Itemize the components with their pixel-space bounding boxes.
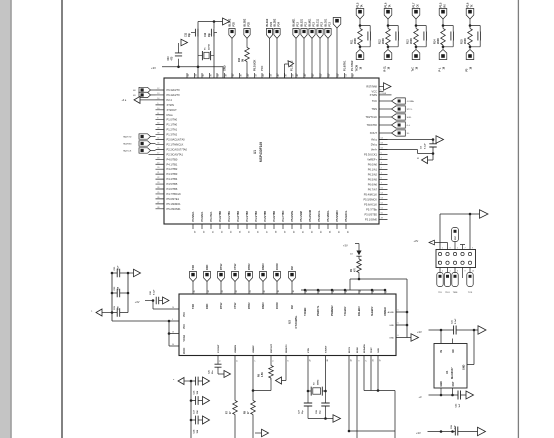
svg-text:TXD: TXD — [192, 304, 195, 309]
capacitor C28 22p — [316, 391, 330, 419]
svg-text:P25: P25 — [232, 22, 235, 27]
svg-text:+3V: +3V — [135, 300, 140, 304]
svg-text:P2.3/CA0/TA1: P2.3/CA0/TA1 — [167, 152, 184, 156]
svg-text:P4.1/TB1: P4.1/TB1 — [228, 210, 231, 221]
svg-text:RTS#: RTS# — [220, 302, 223, 309]
svg-text:19: 19 — [278, 290, 280, 292]
svg-text:11: 11 — [360, 291, 362, 293]
svg-text:18: 18 — [293, 290, 295, 292]
net flag U1 top pin 44 — [266, 18, 273, 78]
wire JTAG TCK/ TDO top rail — [440, 213, 480, 250]
svg-text:16: 16 — [306, 290, 308, 292]
svg-text:RTS#: RTS# — [220, 263, 223, 270]
net flag U1 top pin 41 — [244, 18, 251, 78]
svg-text:XT2IN: XT2IN — [167, 103, 174, 107]
net flag RI# (U3 top pin 18) — [289, 266, 296, 295]
U3 left pin labels and numbers — [172, 307, 186, 354]
svg-text:P4.0/TB0: P4.0/TB0 — [167, 157, 178, 161]
svg-text:R11: R11 — [350, 39, 353, 44]
svg-text:XTOUT: XTOUT — [326, 345, 328, 353]
net flag U1 top pin 45 — [274, 18, 281, 78]
svg-text:BL2A2: BL2A2 — [266, 18, 269, 26]
wire RESET# with gnd arrow — [270, 356, 286, 385]
svg-text:P6.4/A4/TX: P6.4/A4/TX — [167, 93, 181, 97]
svg-text:RST/NMI: RST/NMI — [366, 85, 377, 89]
svg-text:P4.3/TB3: P4.3/TB3 — [246, 210, 249, 221]
wire U4 GND right loop — [467, 330, 474, 365]
svg-text:+3V: +3V — [414, 239, 419, 243]
svg-text:P5.2/SOM: P5.2/SOM — [309, 210, 312, 222]
svg-text:P2.6: P2.6 — [468, 2, 470, 7]
svg-text:9: 9 — [386, 291, 388, 292]
net flag U1 top pin 52 — [325, 18, 332, 78]
svg-text:P1.7/TA2: P1.7/TA2 — [351, 60, 354, 71]
svg-text:26: 26 — [172, 307, 174, 309]
svg-text:P4.3/TB3: P4.3/TB3 — [167, 172, 178, 176]
svg-text:P6.1/A1: P6.1/A1 — [368, 168, 378, 172]
svg-text:P5.6/ACLK: P5.6/ACLK — [364, 203, 377, 207]
svg-text:TDI: TDI — [438, 292, 442, 294]
wire JTAG pin 8 stub down — [462, 268, 464, 279]
svg-text:XT2IN: XT2IN — [370, 93, 377, 97]
U4 pin labels — [440, 349, 465, 387]
svg-text:1: 1 — [358, 360, 360, 361]
svg-text:EECS: EECS — [349, 347, 351, 353]
U1 left pin labels — [167, 88, 188, 211]
svg-text:27: 27 — [309, 359, 311, 361]
svg-text:TA: TA — [360, 4, 363, 7]
resistor R12 200K with parallel capacitor unit — [378, 2, 398, 71]
net flag TDO (JTAG bottom) — [444, 268, 450, 295]
wire bottom bus — [348, 430, 395, 433]
svg-text:200K: 200K — [354, 38, 357, 44]
svg-text:R13: R13 — [406, 39, 409, 44]
svg-text:32768: 32768 — [208, 43, 210, 50]
wire PWREN/TXLED/RXLED bus above U3 — [301, 278, 407, 294]
svg-text:P6.3/A3/TX: P6.3/A3/TX — [167, 88, 181, 92]
op-amp U1 MSP430F149 microcontroller body — [164, 78, 379, 224]
svg-text:TMS: TMS — [453, 292, 458, 294]
svg-text:TCK: TCK — [468, 292, 473, 294]
svg-text:10: 10 — [373, 290, 375, 292]
svg-text:P5.3/UCL: P5.3/UCL — [318, 210, 321, 221]
svg-text:DVss: DVss — [167, 113, 174, 117]
svg-text:2: 2 — [365, 360, 367, 361]
capacitor C23 104 — [111, 305, 128, 316]
wire top gnd rail of crystal — [198, 21, 223, 23]
net flag U1 top pin 50 — [309, 18, 316, 78]
svg-text:GND: GND — [389, 325, 394, 327]
svg-text:3: 3 — [172, 319, 173, 321]
svg-text:TDO/TDI: TDO/TDI — [367, 123, 378, 127]
svg-text:R12: R12 — [378, 39, 381, 44]
svg-text:+3V: +3V — [417, 330, 422, 334]
wire XOUT column — [213, 22, 215, 79]
svg-text:P6.5/A5: P6.5/A5 — [368, 178, 378, 182]
svg-text:C10: C10 — [168, 56, 170, 61]
ground arrow AVss — [417, 157, 428, 164]
net flag P6.4 (U1 left pin 2) — [133, 92, 156, 97]
svg-text:S.NL: S.NL — [407, 117, 413, 119]
U1 top pin stubs and pin numbers — [187, 73, 355, 78]
svg-text:P-L: P-L — [439, 67, 441, 71]
net arrow above C10 — [181, 39, 188, 46]
resistor R10 47K — [239, 48, 250, 63]
capacitor C12 18p — [205, 29, 217, 37]
svg-text:25: 25 — [194, 290, 196, 292]
svg-text:P5.0/STE1: P5.0/STE1 — [167, 197, 180, 201]
svg-text:VCC: VCC — [184, 324, 186, 329]
svg-text:AGND: AGND — [388, 311, 395, 314]
wire JTAG pin 4 stub — [460, 245, 465, 250]
svg-text:P2.0/ACLK/TA0: P2.0/ACLK/TA0 — [167, 138, 186, 142]
capacitor C25 33nF (3V3OUT) — [209, 356, 231, 378]
wire +3V long feed to U3 (from cap bank) — [112, 320, 169, 322]
connector J2 JTAG 2x5 header — [436, 250, 476, 268]
net arrow elbow on U1 top pin (P2.7) — [285, 61, 294, 78]
svg-text:P5.7/TBo: P5.7/TBo — [366, 208, 377, 212]
svg-text:P13: P13 — [320, 22, 323, 27]
crystal Y2 6MHz — [307, 356, 327, 396]
net flag U1 top pin 49 — [301, 18, 308, 78]
wire U4 NC stub — [452, 339, 454, 344]
svg-text:0.1uF: 0.1uF — [153, 289, 155, 295]
svg-text:P4.1/TB1: P4.1/TB1 — [167, 162, 178, 166]
svg-text:OUT: OUT — [452, 381, 455, 387]
net flag RTS# (U3 top pin 23) — [218, 263, 225, 294]
svg-text:USBDM: USBDM — [235, 345, 237, 353]
svg-text:6: 6 — [457, 271, 458, 273]
svg-text:DTR#: DTR# — [248, 263, 251, 270]
capacitor C16 104 with net arrow — [191, 377, 210, 395]
resistor R11 200K with parallel capacitor unit — [350, 2, 370, 71]
svg-text:3V3OUT: 3V3OUT — [218, 344, 220, 353]
svg-text:6: 6 — [398, 335, 399, 337]
svg-text:P25: P25 — [247, 22, 250, 27]
svg-text:30: 30 — [172, 344, 174, 346]
wire AVcc net to decoupling — [379, 140, 433, 161]
svg-text:BLS21: BLS21 — [301, 18, 304, 26]
U1 top pin name labels — [224, 60, 355, 71]
svg-text:GND: GND — [378, 348, 380, 353]
net flag RXD (U3 top pin 24) — [204, 265, 211, 294]
svg-text:XTIN: XTIN — [308, 348, 310, 353]
resistor R8 27 — [245, 401, 256, 438]
svg-text:RXD: RXD — [206, 304, 209, 309]
power arrow (stack top left) — [173, 378, 191, 385]
svg-text:AVcc: AVcc — [371, 138, 378, 142]
svg-text:BLC11: BLC11 — [317, 18, 320, 26]
net flag U1 top pin 51 — [317, 18, 324, 78]
svg-text:0M: 0M — [242, 59, 244, 62]
wire USBDP down — [252, 356, 255, 401]
svg-text:TXCM: TXCM — [356, 65, 358, 72]
svg-text:P3.6/Ut1: P3.6/Ut1 — [201, 211, 204, 221]
power arrow +3V (cap bank top) — [128, 269, 141, 277]
junction dots AVcc net — [432, 138, 435, 141]
svg-text:C11: C11 — [185, 32, 187, 37]
svg-text:4: 4 — [450, 271, 451, 273]
svg-text:U1: U1 — [253, 150, 257, 154]
svg-text:IN: IN — [440, 350, 443, 353]
svg-text:NC: NC — [452, 349, 455, 353]
svg-text:VCCA: VCCA — [183, 335, 186, 342]
power +3V arrow into U1 left pin 3 — [122, 96, 156, 103]
svg-text:BL2B2: BL2B2 — [274, 18, 277, 26]
svg-text:7: 7 — [254, 360, 256, 361]
svg-text:P5.0/STE: P5.0/STE — [291, 210, 294, 221]
svg-text:P4.4/TB4: P4.4/TB4 — [255, 210, 258, 221]
svg-text:R14: R14 — [433, 39, 436, 44]
svg-text:GND: GND — [462, 364, 465, 370]
net flag RST (U1 right pin) — [379, 130, 410, 136]
net arrow (R8 bottom area) — [255, 429, 269, 437]
svg-text:P4.6/TB6: P4.6/TB6 — [273, 210, 276, 221]
svg-text:RSTOUT: RSTOUT — [271, 343, 273, 353]
svg-text:200K: 200K — [382, 38, 385, 44]
op-amp U3 FT232BL body — [179, 294, 396, 356]
svg-text:P1.7: P1.7 — [414, 2, 416, 7]
svg-text:2: 2 — [442, 271, 443, 273]
net flag U1 top pin 39 — [229, 18, 236, 78]
svg-text:P5.5/SMCK: P5.5/SMCK — [363, 198, 377, 202]
svg-text:P13: P13 — [304, 22, 307, 27]
net flag DTR# (U3 top pin 21) — [246, 263, 253, 294]
svg-text:P3.1/SIM0: P3.1/SIM0 — [365, 218, 378, 222]
svg-text:M: M — [417, 158, 419, 160]
net flag DCD# (U3 top pin 19) — [274, 263, 281, 294]
U1 right pin RST arrow stub — [379, 83, 391, 91]
svg-text:+3V: +3V — [343, 244, 348, 248]
svg-text:P2.2/CAOUT/TA0: P2.2/CAOUT/TA0 — [167, 147, 188, 151]
svg-text:TA: TA — [388, 4, 391, 7]
capacitor C30 0.1uF (+3V decoupling U3) — [135, 289, 169, 304]
resistor R7 27 — [227, 401, 238, 438]
svg-text:GND: GND — [440, 381, 443, 387]
svg-text:P3.0/STE0: P3.0/STE0 — [364, 213, 377, 217]
resistor R13 200K with parallel capacitor unit — [406, 2, 426, 71]
U3 top pin labels — [192, 302, 294, 309]
svg-text:P5.4/MCLK: P5.4/MCLK — [364, 193, 378, 197]
capacitor C18 104 with net arrow — [190, 416, 210, 434]
wire U3 right ground pins to vertical rail — [396, 279, 411, 338]
capacitor C31 0.1uF row — [417, 318, 486, 335]
svg-text:+3 a: +3 a — [122, 99, 127, 102]
svg-text:DCD#: DCD# — [276, 302, 279, 309]
net flag TMS (U1 right pin) — [379, 106, 413, 112]
svg-text:TA0/TXD: TA0/TXD — [123, 136, 132, 139]
svg-text:P24: P24 — [277, 22, 280, 27]
svg-text:P5.4/MCL: P5.4/MCL — [327, 210, 330, 222]
net flag U1 top pin 53 (far right) — [333, 18, 341, 79]
svg-text:CK: CK — [417, 4, 419, 8]
svg-text:CTS#: CTS# — [234, 263, 237, 270]
svg-text:P5.2/SOMI1: P5.2/SOMI1 — [167, 207, 182, 211]
net flag U1 top pin 48 — [293, 18, 300, 78]
svg-text:TDI/TCLK: TDI/TCLK — [365, 115, 377, 119]
svg-text:P4.2/TB2: P4.2/TB2 — [237, 210, 240, 221]
svg-text:BLM11: BLM11 — [309, 18, 312, 27]
svg-text:R15: R15 — [460, 39, 463, 44]
svg-text:P1.2/TA1: P1.2/TA1 — [167, 128, 178, 132]
resistor R14 200K with parallel capacitor unit — [433, 2, 453, 71]
net flag TCK (U1 right pin) — [379, 98, 414, 104]
svg-text:P6.6/A6: P6.6/A6 — [368, 183, 378, 187]
svg-text:6: 6 — [398, 310, 399, 312]
wire USBDM down — [234, 356, 236, 401]
svg-text:28: 28 — [327, 359, 329, 361]
svg-text:VeREF+: VeREF+ — [367, 158, 377, 162]
svg-text:P4.4/TB4: P4.4/TB4 — [167, 177, 178, 181]
net flag TCK (JTAG bottom) — [467, 268, 473, 295]
svg-text:DTR#: DTR# — [248, 302, 251, 309]
svg-text:15: 15 — [319, 290, 321, 292]
ground arrow crystal caps — [308, 415, 341, 423]
svg-text:18p: 18p — [189, 32, 191, 37]
svg-text:FT232BL: FT232BL — [294, 315, 298, 328]
LED D2 — [350, 251, 362, 257]
net flag TDI (JTAG bottom) — [437, 268, 443, 295]
svg-text:RI#: RI# — [291, 266, 294, 271]
net flag TDO (U1 right pin) — [379, 122, 411, 128]
svg-text:R-CL: R-CL — [384, 65, 386, 71]
svg-text:10: 10 — [472, 271, 474, 273]
svg-text:P6.2/A2: P6.2/A2 — [368, 173, 378, 177]
svg-text:BLC01: BLC01 — [325, 18, 328, 26]
svg-text:R10: R10 — [239, 57, 241, 62]
svg-text:200K: 200K — [464, 38, 467, 44]
svg-text:3: 3 — [450, 247, 451, 249]
wire U3 left supply rail — [168, 320, 179, 346]
net flag CTS# (U3 top pin 22) — [232, 263, 239, 294]
svg-text:P6.7/A7: P6.7/A7 — [368, 188, 378, 192]
svg-text:0.1uF: 0.1uF — [424, 143, 426, 149]
svg-text:1.5K: 1.5K — [262, 372, 264, 377]
svg-text:5: 5 — [272, 360, 274, 361]
svg-text:TA1/RXD: TA1/RXD — [123, 143, 132, 146]
svg-text:P4.7/TBC: P4.7/TBC — [282, 210, 285, 221]
svg-text:L958A: L958A — [380, 92, 386, 95]
svg-text:P4.6/TB6: P4.6/TB6 — [167, 187, 178, 191]
svg-text:P1.0/TA0: P1.0/TA0 — [167, 118, 178, 122]
svg-text:TXD: TXD — [192, 265, 195, 270]
capacitor C32 1uF row — [419, 388, 474, 408]
capacitor C9 0.1uF (AVcc) — [421, 143, 437, 149]
svg-text:AVCC: AVCC — [183, 347, 186, 354]
svg-text:P3.5/Ur1: P3.5/Ur1 — [192, 211, 195, 222]
svg-text:+3V: +3V — [151, 66, 156, 70]
svg-text:DVcc: DVcc — [371, 143, 378, 147]
svg-text:5: 5 — [457, 247, 458, 249]
svg-text:22: 22 — [236, 290, 238, 292]
svg-text:8: 8 — [465, 271, 466, 273]
svg-text:P2.5: P2.5 — [441, 2, 443, 7]
svg-text:P1.6/TA1: P1.6/TA1 — [344, 60, 347, 71]
net flag TMS (JTAG bottom) — [452, 268, 458, 295]
U3 bottom pin labels — [218, 343, 381, 361]
capacitor bank rails — [112, 273, 128, 321]
svg-text:P4.0/TB0: P4.0/TB0 — [219, 210, 222, 221]
svg-text:0.1uF: 0.1uF — [455, 318, 457, 324]
svg-text:200K: 200K — [410, 38, 413, 44]
crystal Y1 32768Hz — [198, 43, 214, 60]
capacitor C22 104 — [111, 286, 130, 297]
op-amp U4 MAX6037 regulator body — [434, 344, 467, 389]
svg-text:VCC: VCC — [372, 90, 378, 94]
wire U1 left pin 15 extended stub — [149, 153, 156, 155]
power +3V arrow (JTAG pin 2) — [414, 239, 448, 250]
svg-text:18p: 18p — [209, 32, 211, 37]
wire XIN column — [197, 22, 199, 79]
U3 right pin labels — [388, 310, 399, 340]
svg-text:P4.7/TBCLK: P4.7/TBCLK — [167, 192, 182, 196]
svg-text:P4.5/TB5: P4.5/TB5 — [167, 182, 178, 186]
svg-text:XT2 L: XT2 L — [407, 109, 414, 111]
svg-text:P13: P13 — [296, 22, 299, 27]
svg-text:TA2/CLK: TA2/CLK — [123, 150, 132, 153]
svg-text:CTS#: CTS# — [234, 302, 237, 309]
svg-text:RXD: RXD — [206, 265, 209, 270]
wire EESK down — [356, 356, 358, 438]
capacitor C11 18p — [185, 29, 198, 37]
svg-text:GND: GND — [389, 338, 394, 340]
wire U4 IN from +3V rail — [440, 330, 442, 344]
capacitor C21 10uF — [111, 265, 130, 277]
svg-text:TxC: TxC — [412, 67, 414, 72]
svg-text:XOUT: XOUT — [370, 131, 378, 135]
svg-text:P1.3/TA2: P1.3/TA2 — [167, 133, 178, 137]
wire EEDATA bus — [364, 356, 395, 438]
net flag RST/NMI (JTAG pin 3) — [452, 228, 459, 250]
svg-text:TDO: TDO — [445, 292, 450, 294]
net flag DSR# (U3 top pin 20) — [260, 263, 267, 294]
svg-text:P5.1/SIMO1: P5.1/SIMO1 — [167, 202, 182, 206]
svg-text:Vref+: Vref+ — [371, 148, 378, 152]
U1 bottom pin stubs and numbers — [193, 224, 349, 233]
svg-text:TEST: TEST — [371, 347, 373, 353]
net flag TA1/RXD (U1 left pin 144.5) — [123, 141, 156, 146]
svg-text:P5.1/SIM: P5.1/SIM — [300, 211, 303, 221]
svg-text:200K: 200K — [437, 38, 440, 44]
svg-text:YCC: YCC — [261, 66, 264, 71]
U3 top-right pin labels — [304, 289, 388, 316]
svg-text:13: 13 — [172, 331, 174, 333]
svg-text:J-139A: J-139A — [407, 100, 414, 103]
svg-text:8: 8 — [236, 360, 238, 361]
svg-text:RESET#: RESET# — [286, 344, 288, 353]
net flag TA0/TXD (U1 left pin 137.5) — [123, 134, 156, 139]
svg-text:C12: C12 — [205, 32, 207, 37]
svg-text:TXLED#: TXLED# — [344, 306, 347, 316]
svg-text:P5.5/SMC: P5.5/SMC — [336, 210, 339, 222]
svg-text:GND: GND — [224, 65, 227, 71]
svg-text:12: 12 — [346, 290, 348, 292]
resistor R15 200K with parallel capacitor unit — [460, 2, 480, 71]
svg-text:1: 1 — [442, 247, 443, 249]
power arrow VBUS (cap bank left) — [91, 309, 112, 316]
U1 right lower pin stubs with pin numbers — [379, 138, 388, 220]
svg-text:U4: U4 — [445, 370, 449, 374]
svg-text:PWREN#: PWREN# — [331, 305, 334, 316]
svg-text:6: 6 — [219, 360, 221, 361]
svg-text:RXLED#: RXLED# — [358, 306, 361, 316]
svg-text:P5.3/UCK1: P5.3/UCK1 — [364, 153, 378, 157]
svg-text:TX: TX — [471, 4, 473, 7]
svg-text:PWRCTL: PWRCTL — [317, 305, 320, 316]
JTAG pin numbers — [442, 247, 474, 272]
svg-text:SLEEP#: SLEEP# — [371, 306, 374, 316]
net arrow AGND (U3 right) — [411, 334, 419, 342]
